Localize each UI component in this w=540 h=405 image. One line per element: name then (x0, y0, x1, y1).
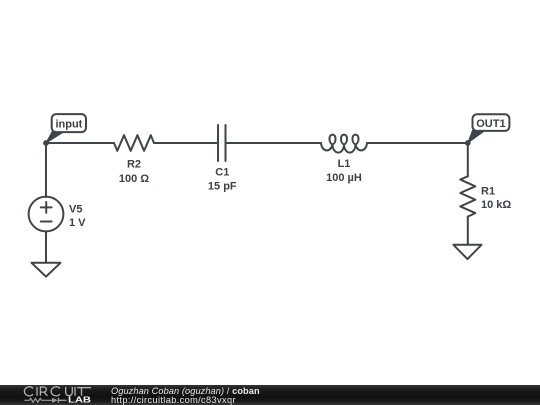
svg-text:C1: C1 (215, 167, 229, 179)
logo letter I (74, 387, 76, 396)
CircuitLab logo (0, 385, 100, 405)
credit text (111, 385, 260, 405)
svg-text:LAB: LAB (68, 396, 91, 405)
wire OUT1 node down to R1 (467, 143, 469, 176)
wire input node to R2 (46, 142, 114, 144)
node input flag pointer (46, 132, 64, 143)
svg-text:10 kΩ: 10 kΩ (481, 199, 511, 211)
svg-text:V5: V5 (69, 203, 82, 215)
svg-text:100 µH: 100 µH (326, 172, 362, 184)
footer bar (0, 385, 540, 405)
svg-text:input: input (55, 119, 82, 131)
logo diode (52, 398, 58, 403)
logo letter T (77, 388, 91, 396)
logo letter C (51, 387, 60, 396)
wire R2 to C1 (154, 142, 218, 144)
logo letter R (40, 387, 47, 396)
capacitor C1 (217, 125, 219, 161)
svg-text:15 pF: 15 pF (208, 180, 237, 192)
svg-text:OUT1: OUT1 (476, 118, 505, 130)
logo letter I (36, 387, 38, 396)
node OUT1 flag box (473, 114, 510, 131)
wire input node down to V5 (45, 143, 47, 197)
svg-text:R2: R2 (127, 159, 141, 171)
svg-text:L1: L1 (338, 158, 351, 170)
node input flag box (52, 114, 86, 132)
node input junction dot (43, 140, 49, 146)
voltage source V5 (29, 197, 64, 232)
resistor R1 (460, 176, 475, 216)
svg-text:R1: R1 (481, 185, 495, 197)
ground (R1) (453, 245, 481, 259)
node OUT1 junction dot (465, 140, 471, 146)
wire L1 to OUT1 node (367, 142, 468, 144)
wire V5 to ground (45, 231, 47, 262)
logo letter C (24, 387, 33, 396)
resistor R2 (114, 135, 154, 151)
wire R1 to ground (467, 217, 469, 245)
inductor L1 (321, 135, 367, 153)
wire C1 to L1 (226, 142, 322, 144)
logo resistor zigzag (24, 398, 52, 402)
node OUT1 flag pointer (468, 130, 485, 143)
logo letter U (66, 387, 73, 396)
svg-text:100 Ω: 100 Ω (119, 173, 149, 185)
svg-text:1 V: 1 V (69, 217, 86, 229)
ground (V5) (32, 263, 61, 277)
